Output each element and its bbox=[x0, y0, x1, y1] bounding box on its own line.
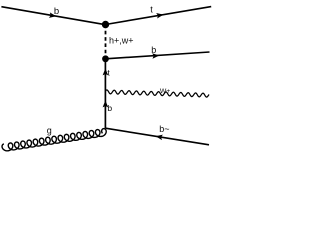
vertex V1 blob top bbox=[102, 21, 109, 28]
arrow on anti-b line pointing back bbox=[156, 135, 163, 141]
svg-text:b: b bbox=[107, 103, 112, 113]
arrow up on b segment bbox=[103, 100, 109, 107]
vertex V2 blob middle bbox=[102, 55, 109, 62]
wire dashed charged-higgs propagator h+,w+ bbox=[105, 25, 107, 59]
svg-text:t: t bbox=[150, 5, 153, 15]
wire vertical t propagator segment bbox=[104, 59, 106, 128]
svg-text:b~: b~ bbox=[159, 124, 169, 134]
wire outgoing b quark middle line bbox=[106, 52, 210, 59]
arrow on middle b line bbox=[152, 53, 159, 59]
gluon incoming curly line bbox=[2, 129, 106, 151]
wire outgoing t quark line bbox=[106, 7, 212, 25]
wire incoming b quark line bbox=[1, 7, 105, 25]
arrow on outgoing t line bbox=[156, 13, 163, 19]
boson W+ wavy line bbox=[105, 90, 209, 97]
svg-text:g: g bbox=[47, 125, 52, 135]
svg-text:b: b bbox=[151, 45, 156, 55]
wire outgoing anti-b quark line bbox=[105, 128, 209, 145]
arrow on incoming b line bbox=[49, 12, 56, 18]
svg-text:t: t bbox=[107, 67, 110, 77]
arrow up on t segment bbox=[103, 68, 109, 75]
svg-text:W+: W+ bbox=[160, 88, 170, 95]
svg-text:h+,w+: h+,w+ bbox=[109, 35, 134, 45]
svg-text:b: b bbox=[54, 6, 59, 17]
